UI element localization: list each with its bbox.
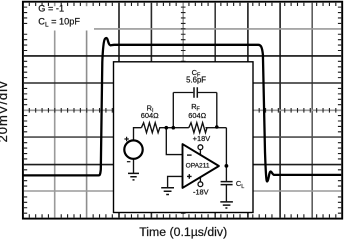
ground (CL) [220, 202, 233, 208]
svg-text:Time (0.1µs/div): Time (0.1µs/div) [139, 225, 227, 239]
svg-text:G = -1: G = -1 [38, 4, 64, 14]
wire: node B to RF [173, 127, 189, 129]
source VIN circle [124, 140, 142, 158]
supply pin circle +18V [198, 145, 203, 150]
wire: node C to output rail corner [217, 127, 227, 129]
supply stub +18V [199, 150, 201, 155]
junction node C dot [215, 125, 219, 129]
graticule fine ticks on centre axes [29, 7, 336, 213]
resistor RF zigzag [189, 123, 207, 133]
svg-text:604Ω: 604Ω [188, 111, 206, 120]
wire: CF branch top left [173, 92, 193, 94]
wire: CF branch top right [198, 92, 217, 94]
supply pin circle -18V [198, 182, 203, 187]
wire: source bottom to ground [133, 159, 135, 173]
resistor RI zigzag [141, 123, 166, 133]
svg-text:20mV/div: 20mV/div [0, 81, 10, 143]
wire: RF to node C [206, 127, 217, 129]
source plus sign [124, 137, 128, 141]
wire: output rail vertical [225, 128, 227, 181]
op-amp minus input sign [187, 154, 192, 156]
inset schematic box [114, 62, 254, 213]
op-amp plus input sign [187, 174, 192, 179]
wire: CF to node C vertical [216, 93, 218, 128]
op-amp U1 triangle [183, 144, 219, 188]
wire: node A to node B [166, 127, 173, 129]
svg-text:OPA211: OPA211 [186, 162, 210, 169]
junction node B dot [172, 126, 176, 130]
white patch behind corner annotation [31, 6, 95, 30]
svg-text:-18V: -18V [193, 188, 209, 197]
junction node A dot [165, 126, 169, 130]
svg-text:604Ω: 604Ω [141, 111, 159, 120]
source minus sign [127, 161, 130, 163]
ground (source) [128, 173, 139, 180]
wire: non-inverting input to ground [168, 176, 183, 187]
supply stub -18V [199, 178, 201, 182]
wire: source top to RI [134, 128, 142, 141]
waveform trace [23, 38, 341, 181]
svg-text:5.6pF: 5.6pF [186, 76, 206, 85]
capacitor CF plates [194, 87, 197, 98]
ground (non-inverting input) [161, 188, 174, 195]
capacitor CL plates [221, 182, 233, 185]
wire: CL to ground [225, 185, 227, 202]
wire: CF branch left vertical [172, 93, 174, 128]
junction output node dot [225, 164, 229, 168]
svg-text:+18V: +18V [193, 134, 211, 143]
wire: inverting input [166, 128, 182, 155]
svg-text:CL = 10pF: CL = 10pF [38, 17, 80, 29]
